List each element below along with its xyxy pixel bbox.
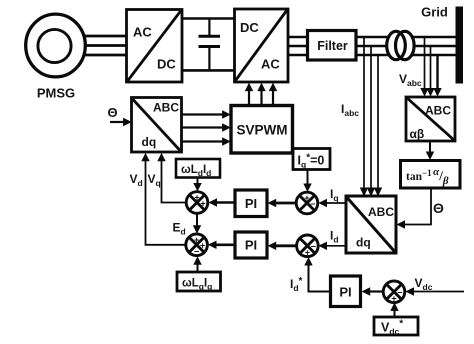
arrowhead Id* into summer S4 xyxy=(304,257,312,266)
transform block U2 dq/ABC xyxy=(132,98,182,153)
wire dq/ABC to SVPWM line 3 xyxy=(182,140,225,142)
converter DC/AC inverter block xyxy=(235,9,289,82)
svg-text:−: − xyxy=(397,288,402,298)
arrowhead into PI1 xyxy=(268,199,277,207)
wire bus filter to transformer phase b xyxy=(356,45,392,48)
arrowhead gate 1 into inverter xyxy=(245,83,253,92)
summer S2 Vd xyxy=(186,234,208,257)
svg-text:Grid: Grid xyxy=(421,5,448,20)
wire summer S3 to PI1 xyxy=(275,202,296,205)
controller PI3 (dc voltage) xyxy=(331,276,361,307)
wire 3-phase PMSG to AC/DC phase c xyxy=(84,54,127,57)
arrowhead wLqIq into summer S2 xyxy=(193,256,201,265)
summer S5 dc voltage error xyxy=(383,281,405,304)
arrowhead Ed into summer S2 xyxy=(193,225,201,234)
wire bus inverter to filter phase c xyxy=(288,54,308,57)
generator PMSG inner circle xyxy=(38,29,71,62)
arrowhead Vq into dq/ABC block xyxy=(157,153,165,162)
block Iq reference box Iq*=0 xyxy=(293,149,330,170)
arrowhead into SVPWM line 1 xyxy=(222,110,231,118)
wire PI1 to summer S1 xyxy=(216,201,235,204)
wire bus filter to transformer phase a xyxy=(356,36,392,39)
arrowhead Vd into dq/ABC block xyxy=(141,153,149,162)
transform block U3 ABC/dq xyxy=(346,196,396,253)
wire bus transformer to grid phase a xyxy=(409,36,456,39)
wire ABC/alphabeta to arctan xyxy=(429,141,431,154)
svg-text:−: − xyxy=(311,242,316,252)
svg-text:ABC: ABC xyxy=(368,205,394,219)
transformer T1 winding 2 xyxy=(396,31,415,59)
svg-text:+: + xyxy=(200,241,205,251)
capacitor DC link xyxy=(199,19,221,71)
svg-text:AC: AC xyxy=(261,57,280,72)
wire 3-phase PMSG to AC/DC phase a xyxy=(84,35,127,38)
arrowhead gate 3 into inverter xyxy=(269,83,277,92)
grid bus bar xyxy=(456,7,464,84)
transform block U4 ABC/alphabeta xyxy=(406,97,455,141)
wire Iabc tap phase c xyxy=(377,55,379,190)
wire Iabc tap phase a xyxy=(363,37,365,190)
wire theta from arctan to abc-dq block xyxy=(404,189,431,225)
wire bus transformer to grid phase c xyxy=(409,54,456,57)
wire SVPWM gate signal 2 to inverter xyxy=(260,89,262,106)
wire DC bus bottom xyxy=(182,69,235,72)
wire summer S5 to PI3 xyxy=(369,290,383,292)
feedforward block wLdId xyxy=(176,159,220,178)
svg-text:PI: PI xyxy=(245,196,257,211)
wire wLdId into summer S1 xyxy=(197,178,199,186)
wire Id from abc-dq to summer S4 xyxy=(325,245,346,247)
wire Vd from S2 to dq/ABC xyxy=(146,160,186,245)
wire dq/ABC to SVPWM line 1 xyxy=(182,113,225,115)
wire Iq from abc-dq to summer S3 xyxy=(325,202,346,204)
arrowhead into summer S2 xyxy=(208,241,217,249)
arrowhead Iabc b into abc-dq block xyxy=(367,188,375,197)
svg-text:dq: dq xyxy=(356,236,371,250)
summer S4 d-axis current error xyxy=(297,235,319,258)
wire Vabc tap phase a xyxy=(424,37,426,91)
arrowhead Vabc c into abc-alphabeta block xyxy=(433,88,441,97)
arrowhead into summer S1 xyxy=(208,198,217,206)
svg-text:dq: dq xyxy=(142,135,157,149)
arrowhead theta into abc-dq block xyxy=(397,220,406,228)
svg-text:+: + xyxy=(194,235,199,245)
svg-text:+: + xyxy=(200,198,205,208)
wire wLqIq into summer S2 xyxy=(197,263,199,272)
filter block xyxy=(308,31,357,61)
wire bus inverter to filter phase a xyxy=(288,36,308,39)
transformer T1 winding 1 xyxy=(387,31,414,59)
svg-text:+: + xyxy=(391,294,396,304)
arrowhead into PI2 xyxy=(268,242,277,250)
arrowhead gate 2 into inverter xyxy=(257,83,265,92)
arrowhead Id into summer S4 xyxy=(318,242,327,250)
generator PMSG outer circle xyxy=(26,14,86,77)
arrowhead Vabc a into abc-alphabeta block xyxy=(420,88,428,97)
arrowhead wLdId into summer S1 xyxy=(193,183,201,192)
svg-text:ABC: ABC xyxy=(153,101,179,115)
svg-text:SVPWM: SVPWM xyxy=(236,123,287,138)
wire PI2 to summer S2 xyxy=(215,244,235,247)
wire Vdc* into summer S5 xyxy=(394,309,396,317)
feedforward block wLqIq xyxy=(177,272,221,292)
wire Vq from S1 to dq/ABC xyxy=(162,160,187,203)
arrowhead into arctan block xyxy=(426,152,434,161)
svg-text:+: + xyxy=(194,193,199,203)
svg-text:AC: AC xyxy=(133,25,152,40)
svg-text:+: + xyxy=(304,193,309,203)
wire Vabc tap phase c xyxy=(436,55,438,91)
wire theta input into dq/ABC xyxy=(110,121,125,123)
arrowhead Iq* into summer S3 xyxy=(303,184,311,193)
svg-text:Filter: Filter xyxy=(317,39,348,53)
svg-text:−: − xyxy=(194,247,199,257)
svg-text:+: + xyxy=(305,248,310,258)
wire summer S4 to PI2 xyxy=(275,244,297,247)
arrowhead Iq into summer S3 xyxy=(318,199,327,207)
arrowhead Iabc c into abc-dq block xyxy=(374,188,382,197)
wire Iabc tap phase b xyxy=(370,46,372,190)
wire DC bus top xyxy=(182,17,235,20)
svg-text:Θ: Θ xyxy=(433,200,444,216)
svg-text:ABC: ABC xyxy=(425,104,451,118)
wire dq/ABC to SVPWM line 2 xyxy=(182,126,225,128)
arrowhead Vabc b into abc-alphabeta block xyxy=(426,88,434,97)
wire Iq* reference into summer S3 xyxy=(307,170,309,187)
wire bus inverter to filter phase b xyxy=(288,45,308,48)
controller PI1 (q axis) xyxy=(235,190,267,217)
wire S1 down to S2 (Ed) xyxy=(196,213,198,227)
arrowhead Vdc into summer S5 xyxy=(405,287,414,295)
block SVPWM modulator xyxy=(231,106,293,154)
wire Id* from PI3 up into summer S4 xyxy=(309,264,331,292)
wire SVPWM gate signal 3 to inverter xyxy=(272,89,274,106)
block arctan alpha/beta xyxy=(401,161,461,189)
arrowhead Vdc* into summer S5 xyxy=(390,302,398,311)
wire Vdc input into summer S5 xyxy=(413,291,464,293)
wire Vabc tap phase b xyxy=(430,46,432,91)
arrowhead into SVPWM line 2 xyxy=(222,123,231,131)
block Vdc reference box Vdc* xyxy=(374,317,418,337)
wire SVPWM gate signal 1 to inverter xyxy=(248,89,250,106)
summer S1 Vq xyxy=(186,192,208,214)
svg-text:DC: DC xyxy=(240,20,259,35)
wire 3-phase PMSG to AC/DC phase b xyxy=(86,44,127,47)
svg-text:PI: PI xyxy=(339,285,351,300)
svg-text:PI: PI xyxy=(245,238,257,253)
svg-text:DC: DC xyxy=(157,57,176,72)
svg-text:αβ: αβ xyxy=(410,127,425,141)
wire bus filter to transformer phase c xyxy=(356,54,392,57)
svg-text:PMSG: PMSG xyxy=(37,86,75,101)
arrowhead theta into dq/ABC xyxy=(123,118,132,126)
controller PI2 (d axis) xyxy=(235,232,267,258)
svg-text:Θ: Θ xyxy=(108,105,118,120)
wire bus transformer to grid phase b xyxy=(409,45,456,48)
arrowhead into SVPWM line 3 xyxy=(222,137,231,145)
summer S3 q-axis current error xyxy=(296,192,318,214)
converter AC/DC rectifier block xyxy=(127,10,183,83)
arrowhead into PI3 xyxy=(362,287,371,295)
arrowhead Iabc a into abc-dq block xyxy=(360,188,368,197)
svg-text:−: − xyxy=(310,199,315,209)
